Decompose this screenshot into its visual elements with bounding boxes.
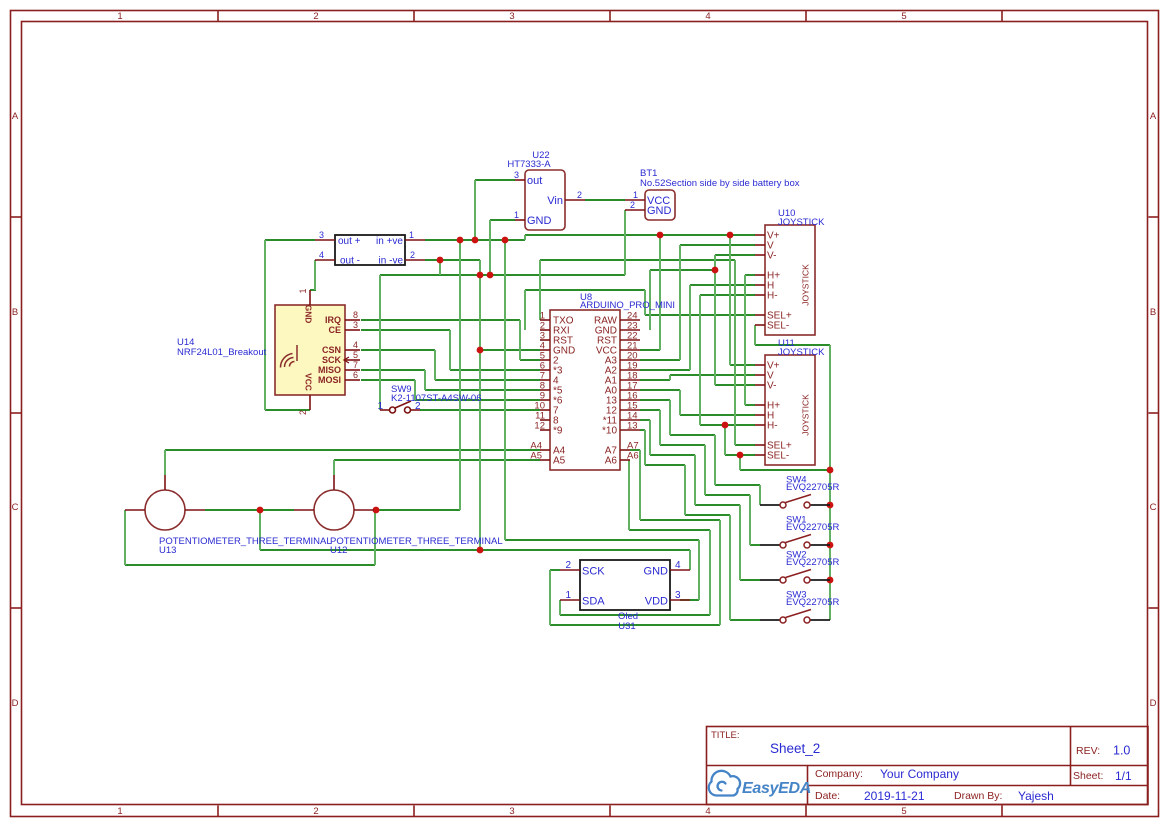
wire A0 pin17 <box>640 389 680 391</box>
svg-text:VCC: VCC <box>304 373 314 391</box>
svg-text:2019-11-21: 2019-11-21 <box>864 789 925 803</box>
wire pin16 path <box>670 434 715 436</box>
wire riser GND V- <box>714 255 716 385</box>
svg-text:D: D <box>12 698 19 709</box>
wire riser TXO <box>539 260 541 320</box>
wire pin13 path <box>645 464 685 466</box>
svg-text:REV:: REV: <box>1076 745 1100 757</box>
wire riser SW9 <box>379 275 381 410</box>
svg-text:2: 2 <box>415 401 421 412</box>
svg-text:POTENTIOMETER_THREE_TERMINAL: POTENTIOMETER_THREE_TERMINAL <box>330 536 503 547</box>
svg-text:4: 4 <box>319 250 324 260</box>
voltage regulator U22 HT7333-A <box>507 150 585 230</box>
wire U11 SEL- <box>725 454 755 456</box>
svg-text:B: B <box>12 307 18 318</box>
svg-text:C: C <box>1150 502 1157 513</box>
svg-text:GND: GND <box>527 215 552 227</box>
svg-text:Vin: Vin <box>547 195 563 207</box>
potentiometer U13 <box>125 475 205 530</box>
svg-text:H-: H- <box>767 291 778 302</box>
svg-text:GND: GND <box>304 305 314 324</box>
svg-text:3: 3 <box>514 170 519 180</box>
wire JP pin3 to node <box>265 239 315 241</box>
wire riser SEL- <box>724 425 726 455</box>
svg-text:5: 5 <box>901 11 906 22</box>
svg-text:GND: GND <box>644 566 669 578</box>
svg-text:JOYSTICK: JOYSTICK <box>801 394 811 436</box>
svg-text:3: 3 <box>353 320 358 330</box>
wire U10 H+ <box>745 274 755 276</box>
svg-text:SEL-: SEL- <box>767 321 789 332</box>
wire riser SW chain <box>829 345 831 620</box>
wire pot mid right <box>374 509 460 511</box>
wire U14 VCC <box>265 409 310 411</box>
svg-text:MISO: MISO <box>318 365 341 375</box>
wire TXO run <box>540 259 735 261</box>
svg-text:SDA: SDA <box>582 596 605 608</box>
svg-text:A: A <box>1150 111 1157 122</box>
wire riser pot v <box>374 510 376 565</box>
wire jog A1 <box>669 375 671 380</box>
wire riser p15b <box>704 445 706 495</box>
wire riser RXI <box>524 290 526 330</box>
wire U11 V <box>670 374 755 376</box>
wire riser pot U12 top <box>333 460 335 475</box>
svg-text:K2-1107ST-A4SW-06: K2-1107ST-A4SW-06 <box>391 393 481 404</box>
svg-text:EVQ22705R: EVQ22705R <box>786 482 839 493</box>
wire riser oled GND <box>689 550 691 570</box>
svg-text:5: 5 <box>901 806 906 817</box>
wire U22 GND <box>490 219 515 221</box>
wire riser V+ U11 <box>729 235 731 365</box>
wire U10 SEL+ <box>645 314 755 316</box>
svg-text:JOYSTICK: JOYSTICK <box>801 264 811 306</box>
svg-text:Sheet_2: Sheet_2 <box>770 741 820 756</box>
svg-text:6: 6 <box>353 370 358 380</box>
wire SDA path <box>629 529 710 531</box>
wire riser SCK pin <box>549 570 551 625</box>
wire U10 SEL- run <box>755 344 830 346</box>
wire U11 SEL+ <box>735 444 755 446</box>
wire SDA bottom <box>560 614 710 616</box>
wire U14 GND jog <box>310 289 316 291</box>
wire IRQ <box>361 319 520 321</box>
push switch SW3 EVQ22705R <box>760 590 839 624</box>
wire pin5 D2 <box>520 359 540 361</box>
wire pot mid left <box>205 509 294 511</box>
svg-text:*10: *10 <box>602 426 617 437</box>
wire riser SDA pin <box>559 600 561 615</box>
svg-text:A: A <box>12 111 19 122</box>
wire pin15 path <box>660 444 705 446</box>
joystick U10 <box>755 208 825 335</box>
wire riser V+ oled <box>504 240 506 540</box>
wire MOSI <box>361 379 415 381</box>
wire riser MOSI <box>414 380 416 400</box>
svg-text:3: 3 <box>509 806 514 817</box>
wire to SW2 <box>695 504 740 506</box>
wire riser VDD <box>698 540 700 600</box>
svg-text:Yajesh: Yajesh <box>1018 789 1054 803</box>
svg-text:MOSI: MOSI <box>318 375 341 385</box>
svg-text:SEL-: SEL- <box>767 451 789 462</box>
wire riser SEL+a <box>644 290 646 315</box>
wire riser VCC radio <box>264 240 266 410</box>
svg-text:3: 3 <box>675 590 681 601</box>
svg-text:8: 8 <box>353 310 358 320</box>
wire A3 pin20 <box>640 359 680 361</box>
svg-text:in -ve: in -ve <box>379 256 404 267</box>
U14 antenna symbol <box>280 345 297 368</box>
wire riser JP4 <box>314 260 316 290</box>
wire riser out <box>474 180 476 240</box>
svg-text:V-: V- <box>767 251 776 262</box>
svg-text:1: 1 <box>633 190 638 200</box>
wire riser MISO <box>424 370 426 390</box>
svg-text:EVQ22705R: EVQ22705R <box>786 597 839 608</box>
wire U11 H <box>680 414 755 416</box>
wire riser H+ <box>744 275 746 405</box>
svg-text:1: 1 <box>298 288 308 293</box>
wire riser SW1 <box>749 495 751 545</box>
wire riser SW2 <box>739 505 741 580</box>
svg-text:1: 1 <box>565 590 571 601</box>
svg-text:12: 12 <box>534 421 545 432</box>
wire riser SDA <box>709 530 711 615</box>
wire pin6 D3 <box>450 369 540 371</box>
svg-text:in +ve: in +ve <box>376 236 403 247</box>
svg-text:No.52Section side by side batt: No.52Section side by side battery box <box>640 178 800 189</box>
svg-text:POTENTIOMETER_THREE_TERMINAL: POTENTIOMETER_THREE_TERMINAL <box>159 536 332 547</box>
svg-text:2: 2 <box>410 250 415 260</box>
wire riser p13a <box>644 430 646 465</box>
wire GND bus <box>380 274 625 276</box>
wire SW9 to pin10 <box>420 409 540 411</box>
svg-text:SCK: SCK <box>322 355 342 365</box>
wire riser JP2a <box>439 260 441 275</box>
push switch SW4 EVQ22705R <box>760 475 839 509</box>
wire GND to pin4 <box>480 349 540 351</box>
wire riser p16b <box>714 435 716 485</box>
svg-text:ARDUINO_PRO_MINI: ARDUINO_PRO_MINI <box>580 300 675 311</box>
svg-text:EasyEDA: EasyEDA <box>742 780 811 797</box>
wire riser A7 <box>639 450 641 520</box>
svg-text:B: B <box>1150 307 1156 318</box>
svg-text:EVQ22705R: EVQ22705R <box>786 522 839 533</box>
wire riser A6 <box>628 460 630 530</box>
wire pin8 D5 <box>425 389 540 391</box>
wire V+ bus right <box>525 234 755 236</box>
wire CSN <box>361 349 435 351</box>
slide switch SW9 K2-1107ST <box>377 384 481 413</box>
wire SEL- to SW chain <box>740 469 830 471</box>
wire riser H A2 <box>689 285 691 370</box>
svg-text:4: 4 <box>353 340 358 350</box>
wire pin13 D10 <box>640 429 645 431</box>
svg-text:VDD: VDD <box>645 596 668 608</box>
wire MISO <box>361 369 425 371</box>
battery box BT1 <box>625 168 800 220</box>
svg-text:GND: GND <box>647 205 672 217</box>
svg-text:JOYSTICK: JOYSTICK <box>778 217 825 228</box>
svg-text:7: 7 <box>353 360 358 370</box>
microcontroller U8 ARDUINO_PRO_MINI <box>530 292 675 470</box>
OLED display U31 <box>560 560 690 632</box>
svg-text:TITLE:: TITLE: <box>711 730 740 741</box>
U14 SCK clock mark <box>344 357 349 363</box>
wire to SW1 <box>705 494 750 496</box>
wire riser SCK <box>719 520 721 625</box>
wire U11 H+ <box>745 404 755 406</box>
svg-text:1: 1 <box>117 806 122 817</box>
wire GND seg upper <box>650 269 715 271</box>
wire riser SW3 <box>729 515 731 620</box>
svg-text:13: 13 <box>627 421 638 432</box>
wire CE <box>361 329 450 331</box>
wire SCK path <box>640 519 720 521</box>
wire U10 V <box>680 244 755 246</box>
wire riser p13b <box>684 465 686 515</box>
svg-text:V-: V- <box>767 381 776 392</box>
wire V+ bus left <box>425 239 525 241</box>
wire U11 H- <box>700 424 755 426</box>
wire riser VCC 21 <box>659 235 661 350</box>
wire riser BT1 gnd <box>624 210 626 275</box>
wire JP pin2 <box>425 259 480 261</box>
wire pin15 D12 <box>640 409 660 411</box>
svg-text:1: 1 <box>117 11 122 22</box>
wire VCC pin21 <box>640 349 660 351</box>
wire riser V+ pots <box>459 240 461 510</box>
wire riser pot gnd <box>259 510 261 550</box>
wire U10 H <box>690 284 755 286</box>
svg-text:CE: CE <box>328 325 341 335</box>
wire A5 <box>334 459 540 461</box>
svg-text:U13: U13 <box>159 545 176 556</box>
wire A1 pin18 <box>640 379 670 381</box>
wire VDD short <box>680 599 699 601</box>
wire riser A0 H <box>679 390 681 415</box>
wire pin9 D6 <box>415 399 540 401</box>
wire pin14 path <box>650 454 695 456</box>
svg-text:out: out <box>527 175 542 187</box>
power connector JP out+/in+ve <box>315 230 425 267</box>
junction dots <box>257 232 834 584</box>
wire riser V A3 <box>679 245 681 360</box>
wire RXI run <box>525 289 645 291</box>
wire SCK bottom <box>550 624 720 626</box>
wire riser U10 SEL- <box>754 325 756 345</box>
svg-text:3: 3 <box>319 230 324 240</box>
svg-text:2: 2 <box>577 190 582 200</box>
wire SCK short <box>550 569 560 571</box>
svg-text:EVQ22705R: EVQ22705R <box>786 557 839 568</box>
potentiometer U12 <box>294 475 374 530</box>
wire U22 out <box>475 179 515 181</box>
wire A2 pin19 <box>640 369 690 371</box>
wire to SW3 path <box>685 514 730 516</box>
wire riser p15a <box>659 410 661 445</box>
wire pot bottom <box>125 564 375 566</box>
wire SW1 left <box>750 544 760 546</box>
wire riser SEL- d <box>739 455 741 470</box>
radio module U14 NRF24L01_Breakout <box>177 288 360 415</box>
wire Vin to BT1 VCC <box>585 199 625 201</box>
svg-text:out -: out - <box>340 256 360 267</box>
svg-text:4: 4 <box>675 560 681 571</box>
wire A7 short <box>630 449 640 451</box>
svg-text:HT7333-A: HT7333-A <box>507 159 551 170</box>
wire pin16 D13 <box>640 399 670 401</box>
svg-text:*9: *9 <box>553 426 563 437</box>
wire SW3 left <box>730 619 760 621</box>
wire riser p16a <box>669 400 671 435</box>
wire SW2 left <box>740 579 760 581</box>
wire riser p14a <box>649 420 651 455</box>
wire riser U22 gnd <box>489 220 491 275</box>
svg-text:U31: U31 <box>618 621 635 632</box>
svg-text:Drawn By:: Drawn By: <box>954 790 1002 802</box>
svg-text:1: 1 <box>377 401 383 412</box>
svg-text:5: 5 <box>353 350 358 360</box>
wire pin14 D11 <box>640 419 650 421</box>
svg-text:4: 4 <box>705 806 710 817</box>
wire riser CSN <box>434 350 436 380</box>
wire VDD path <box>505 539 699 541</box>
svg-text:2: 2 <box>313 806 318 817</box>
svg-text:A6: A6 <box>605 456 618 467</box>
svg-text:1/1: 1/1 <box>1115 769 1132 783</box>
svg-text:IRQ: IRQ <box>325 315 341 325</box>
svg-text:H-: H- <box>767 421 778 432</box>
wire riser IRQ <box>519 320 521 360</box>
wire U10 H- <box>700 294 755 296</box>
wire U11 V- <box>715 384 755 386</box>
svg-text:A6: A6 <box>627 451 639 462</box>
wire riser pot left <box>124 510 126 565</box>
svg-text:2: 2 <box>565 560 571 571</box>
wire jog V+ <box>524 235 526 240</box>
svg-text:C: C <box>12 502 19 513</box>
wire riser p14b <box>694 455 696 505</box>
svg-text:Company:: Company: <box>815 768 863 780</box>
title block <box>707 727 1149 805</box>
wire riser H- <box>699 295 701 425</box>
EasyEDA logo <box>709 771 811 797</box>
svg-text:D: D <box>1150 698 1157 709</box>
push switch SW2 EVQ22705R <box>760 550 839 584</box>
wire riser CE <box>449 330 451 370</box>
wire riser JP2b <box>479 260 481 275</box>
svg-text:3: 3 <box>509 11 514 22</box>
wire riser SW4 <box>759 485 761 505</box>
svg-text:1: 1 <box>514 210 519 220</box>
svg-text:Your Company: Your Company <box>880 767 959 781</box>
wire A4 <box>165 449 540 451</box>
svg-text:4: 4 <box>705 11 710 22</box>
svg-text:2: 2 <box>630 200 635 210</box>
svg-text:Date:: Date: <box>815 790 840 802</box>
wire U10 V- <box>715 254 755 256</box>
svg-text:1: 1 <box>409 230 414 240</box>
svg-text:out +: out + <box>338 236 361 247</box>
wire riser GND 23 <box>649 270 651 330</box>
svg-text:SCK: SCK <box>582 566 605 578</box>
push switch SW1 EVQ22705R <box>760 515 839 549</box>
wire U11 V+ <box>730 364 755 366</box>
wire riser GND mid <box>479 275 481 550</box>
svg-text:Sheet:: Sheet: <box>1073 770 1103 782</box>
svg-text:1.0: 1.0 <box>1113 744 1130 758</box>
wire GND bus low <box>260 549 690 551</box>
svg-text:NRF24L01_Breakout: NRF24L01_Breakout <box>177 347 267 358</box>
svg-text:2: 2 <box>298 410 308 415</box>
wire pin7 D4 <box>435 379 540 381</box>
svg-text:A5: A5 <box>553 456 566 467</box>
wire riser pot U13 top <box>164 450 166 475</box>
svg-text:CSN: CSN <box>322 345 341 355</box>
svg-text:JOYSTICK: JOYSTICK <box>778 347 825 358</box>
wire to SW4 <box>715 484 760 486</box>
svg-text:U12: U12 <box>330 545 347 556</box>
wire riser TXO SEL <box>734 260 736 445</box>
svg-text:2: 2 <box>313 11 318 22</box>
joystick U11 <box>755 338 825 465</box>
svg-text:A5: A5 <box>530 451 542 462</box>
